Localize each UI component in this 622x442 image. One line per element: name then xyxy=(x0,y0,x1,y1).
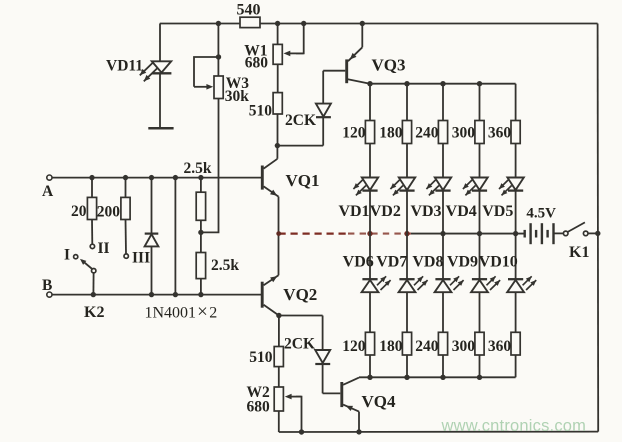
resistor 120 lower xyxy=(342,292,374,377)
svg-text:120: 120 xyxy=(342,338,366,355)
LED VD1 xyxy=(338,144,378,234)
wire A-B link xyxy=(174,178,176,295)
wire input rail B xyxy=(52,294,261,296)
terminal B xyxy=(42,277,52,297)
svg-text:VD8: VD8 xyxy=(412,254,443,271)
svg-text:300: 300 xyxy=(452,338,476,355)
svg-text:510: 510 xyxy=(249,103,273,120)
resistor 2.5k lower xyxy=(196,232,239,294)
svg-text:K1: K1 xyxy=(569,244,589,261)
svg-text:VD5: VD5 xyxy=(482,203,513,220)
node lower bus c2 xyxy=(404,375,409,380)
LED VD3 xyxy=(410,144,451,234)
node VQ1 collector junction xyxy=(275,143,280,148)
wire upper LED bus xyxy=(370,83,516,85)
svg-text:VD10: VD10 xyxy=(479,254,518,271)
wire 510 to W2 xyxy=(278,367,280,387)
resistor 510 upper xyxy=(249,93,283,120)
resistor 20 xyxy=(71,178,97,221)
svg-text:VD1: VD1 xyxy=(338,203,369,220)
resistor 180 lower xyxy=(379,292,411,377)
svg-text:120: 120 xyxy=(342,125,366,142)
switch contact II xyxy=(90,220,109,257)
node A/200 xyxy=(123,175,128,180)
svg-text:VD2: VD2 xyxy=(370,203,401,220)
node B/K2 xyxy=(91,292,96,297)
svg-text:II: II xyxy=(98,240,110,257)
LED VD4 xyxy=(446,144,488,234)
wire center bus dashed segment faint xyxy=(348,233,411,235)
wire 510 to collector node xyxy=(277,114,279,146)
node K1 / right rail xyxy=(595,231,600,236)
node upper bus c3 xyxy=(440,81,445,86)
svg-text:2.5k: 2.5k xyxy=(211,257,239,274)
wire center bus dashed segment xyxy=(279,232,349,234)
ground xyxy=(148,127,173,130)
wire W1 top lead xyxy=(277,24,279,45)
terminal A xyxy=(42,175,54,200)
node bus/VD3 xyxy=(440,231,445,236)
LED VD9 xyxy=(447,234,500,293)
resistor 300 upper xyxy=(452,84,484,144)
svg-text:VD11: VD11 xyxy=(106,58,143,75)
svg-text:540: 540 xyxy=(237,1,261,18)
svg-text:4.5V: 4.5V xyxy=(526,206,556,222)
svg-text:680: 680 xyxy=(247,399,271,416)
wire W1 to 510 xyxy=(277,64,279,92)
diode 1N4001 xyxy=(145,178,159,295)
node A/20 xyxy=(89,175,94,180)
potentiometer W1 680 xyxy=(244,24,303,72)
svg-text:30k: 30k xyxy=(225,88,250,105)
node lower bus c3 xyxy=(440,375,445,380)
node divider xyxy=(198,230,203,235)
node upper bus c1 xyxy=(367,81,372,86)
wire center bus solid segment xyxy=(411,233,525,235)
svg-text:B: B xyxy=(42,277,52,294)
node A/2.5k xyxy=(198,175,203,180)
wire lower LED bus xyxy=(359,376,516,378)
diode 2CK lower xyxy=(284,316,330,394)
svg-text:VQ3: VQ3 xyxy=(372,56,406,75)
node bus/VD2 xyxy=(404,231,409,236)
wire top supply rail xyxy=(160,23,598,25)
node A/link xyxy=(173,175,178,180)
wire right supply rail xyxy=(597,24,600,432)
resistor 200 xyxy=(97,178,130,221)
transistor VQ1 xyxy=(262,146,319,197)
wire collector node to 2CK lower xyxy=(279,315,323,317)
wire VQ4 emitter riser xyxy=(358,412,360,432)
node bus/VD1 xyxy=(367,231,372,236)
node lower bus c4 xyxy=(477,375,482,380)
svg-text:1N4001×2: 1N4001×2 xyxy=(145,301,218,322)
node upper bus c4 xyxy=(477,81,482,86)
svg-text:VD7: VD7 xyxy=(376,254,407,271)
wire input rail A xyxy=(52,177,261,179)
battery 4.5V xyxy=(525,206,564,245)
svg-text:VD6: VD6 xyxy=(343,254,374,271)
potentiometer W2 680 xyxy=(247,384,305,434)
LED VD2 xyxy=(370,144,415,234)
resistor 510 lower xyxy=(249,316,283,367)
wire W2 to bottom rail xyxy=(278,411,280,432)
node VQ2 collector junction xyxy=(276,313,281,318)
wire VQ1 emitter riser xyxy=(278,197,280,234)
svg-text:K2: K2 xyxy=(84,304,104,321)
node bus/VD5 xyxy=(513,231,518,236)
svg-text:2CK: 2CK xyxy=(285,112,316,129)
transistor VQ4 xyxy=(342,378,396,412)
node center bus left corner xyxy=(276,231,281,236)
transistor VQ3 xyxy=(323,24,405,84)
wire VD11 anode xyxy=(159,24,161,62)
svg-text:VQ1: VQ1 xyxy=(286,171,320,190)
svg-text:VD3: VD3 xyxy=(410,203,441,220)
wire VD11 cathode xyxy=(159,73,161,128)
wire VQ2 emitter riser xyxy=(278,234,280,276)
resistor 360 upper xyxy=(488,84,520,144)
svg-text:510: 510 xyxy=(249,349,273,366)
svg-text:2.5k: 2.5k xyxy=(184,160,212,177)
node B/2.5k xyxy=(198,292,203,297)
node VQ4 emitter / bottom rail xyxy=(356,429,361,434)
svg-text:www.cntronics.com: www.cntronics.com xyxy=(441,417,587,435)
svg-text:20: 20 xyxy=(71,203,87,220)
LED VD11 xyxy=(106,58,171,82)
resistor 180 upper xyxy=(379,84,411,144)
label 1N4001x2 xyxy=(145,301,218,322)
wire 2.5k junction xyxy=(200,220,202,232)
wire W3 top lead xyxy=(217,24,219,77)
resistor 240 lower xyxy=(415,292,447,377)
svg-text:360: 360 xyxy=(488,338,512,355)
svg-text:300: 300 xyxy=(452,125,476,142)
node top rail / W3 xyxy=(216,21,221,26)
LED VD7 xyxy=(376,234,427,293)
node top rail / W1 xyxy=(275,21,280,26)
svg-text:200: 200 xyxy=(97,204,121,221)
diode 2CK upper xyxy=(285,71,331,146)
LED VD8 xyxy=(412,234,463,293)
watermark xyxy=(441,417,587,435)
resistor 540 xyxy=(237,1,261,27)
svg-text:2CK: 2CK xyxy=(284,335,315,352)
svg-text:I: I xyxy=(64,247,70,264)
svg-text:360: 360 xyxy=(488,125,512,142)
svg-text:VD9: VD9 xyxy=(447,254,478,271)
wire collector node to 2CK upper xyxy=(277,145,323,147)
node B/link xyxy=(173,292,178,297)
node top rail / W1 wiper xyxy=(301,21,306,26)
LED VD5 xyxy=(482,144,524,234)
svg-text:240: 240 xyxy=(415,125,439,142)
svg-text:240: 240 xyxy=(415,338,439,355)
svg-text:180: 180 xyxy=(379,338,403,355)
svg-text:III: III xyxy=(132,249,150,266)
wire W3 bottom lead xyxy=(201,99,219,233)
resistor 2.5k upper xyxy=(184,160,212,221)
wire 2CK to VQ4 base xyxy=(323,392,341,394)
resistor 240 upper xyxy=(415,84,447,144)
LED VD10 xyxy=(479,234,537,293)
resistor 360 lower xyxy=(488,292,520,377)
transistor VQ2 xyxy=(262,275,317,315)
node B/diode xyxy=(149,292,154,297)
svg-text:VQ2: VQ2 xyxy=(283,285,317,304)
node top rail / VQ3 emitter xyxy=(360,21,365,26)
node bus/VD4 xyxy=(477,231,482,236)
LED VD6 xyxy=(343,234,391,293)
resistor 120 upper xyxy=(342,84,374,144)
svg-text:VQ4: VQ4 xyxy=(362,392,397,411)
potentiometer W3 30k xyxy=(194,54,249,105)
node A/diode xyxy=(149,175,154,180)
wire bottom supply rail xyxy=(279,431,598,433)
svg-text:680: 680 xyxy=(245,54,269,71)
resistor 300 lower xyxy=(452,292,484,377)
switch contact III xyxy=(124,220,150,267)
node lower bus c1 xyxy=(367,375,372,380)
svg-text:VD4: VD4 xyxy=(446,203,477,220)
svg-text:A: A xyxy=(42,183,54,200)
switch K1 xyxy=(563,222,597,261)
switch K2 xyxy=(64,247,104,322)
node upper bus c2 xyxy=(404,81,409,86)
svg-text:180: 180 xyxy=(379,125,403,142)
